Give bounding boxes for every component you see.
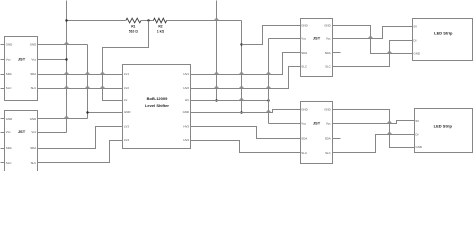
svg-text:Vcc: Vcc <box>31 130 36 134</box>
svg-text:JST: JST <box>313 121 321 126</box>
svg-text:GND: GND <box>6 43 12 47</box>
wire J1 GND row to V2 <box>38 44 88 46</box>
junction Vcc row x V1 <box>65 58 67 60</box>
junction VA x HV row <box>215 99 217 101</box>
svg-text:Level Shifter: Level Shifter <box>145 103 169 108</box>
wire U1 HV row to VC <box>191 100 269 102</box>
LED Strip 1 box <box>413 19 473 61</box>
svg-text:GND: GND <box>30 43 36 47</box>
svg-text:SLC: SLC <box>6 161 12 165</box>
connector J1 (JST) box <box>5 37 38 101</box>
junction U1 GND row x V2 <box>86 111 88 113</box>
svg-text:GND: GND <box>414 52 420 56</box>
wire J4 SLC to LED2 DI <box>333 135 415 153</box>
wire 5V bus VC vertical <box>268 39 270 124</box>
J2 left pin stub GND <box>1 118 5 120</box>
junction HV row x VC <box>267 99 269 101</box>
wire J1 SDA row to U1 LV1 <box>38 74 123 76</box>
svg-text:LV3: LV3 <box>124 125 129 129</box>
wire R1 to R2 with tap <box>141 20 154 22</box>
wire VC top into J3 Vcc row <box>269 38 301 40</box>
LED Strip 2 box <box>415 109 473 153</box>
svg-text:LED Strip: LED Strip <box>434 30 453 35</box>
svg-text:Vcc: Vcc <box>301 122 306 126</box>
wire Vcc bus V1 into J2 Vcc row <box>38 132 67 134</box>
svg-text:Vcc: Vcc <box>301 37 306 41</box>
svg-text:510 Ω: 510 Ω <box>129 30 138 34</box>
svg-text:5V: 5V <box>416 119 420 123</box>
wire GND feed from VB to J3 GND <box>242 26 301 45</box>
hop HV2 row over VC <box>266 86 270 88</box>
svg-text:Vcc: Vcc <box>326 122 331 126</box>
svg-text:SDA: SDA <box>301 137 307 141</box>
connector J3 (JST) box <box>301 19 333 77</box>
junction VB x GND row <box>240 111 242 113</box>
hop SDA row over V1 <box>64 72 68 74</box>
svg-text:HV4: HV4 <box>183 138 189 142</box>
svg-text:SLC: SLC <box>31 86 37 90</box>
hop HV1 row over VA <box>214 72 218 74</box>
hop HV2 row over VB <box>239 86 243 88</box>
svg-text:SDA: SDA <box>6 146 12 150</box>
J1 left pin stub SDA <box>1 74 5 76</box>
svg-text:5V: 5V <box>414 25 418 29</box>
J2 left pin stub Vcc <box>1 132 5 134</box>
svg-text:JST: JST <box>18 57 26 62</box>
svg-text:DI: DI <box>416 132 419 136</box>
hop SLC row over tap leg <box>100 86 104 88</box>
svg-text:GND: GND <box>301 108 307 112</box>
svg-text:SDA: SDA <box>6 72 12 76</box>
wire U1 GND row right to J4 GND <box>191 110 301 113</box>
hop J3 Vcc row over GND drop <box>368 36 372 38</box>
svg-text:SDA: SDA <box>301 51 307 55</box>
svg-text:DI: DI <box>414 39 417 43</box>
wire J3 Vcc to LED1 5V <box>333 27 413 39</box>
hop J4 Vcc row over GND drop <box>387 121 391 123</box>
wire U1 HV1 row to riser into J3 SDA <box>191 53 301 75</box>
wire J1 SLC row to U1 LV2 <box>38 88 123 90</box>
wire tap leg down-left-down to LV pin <box>103 21 149 101</box>
hop HV1 row over VC <box>266 72 270 74</box>
svg-text:SDA: SDA <box>325 137 331 141</box>
wire Vcc bus V1 vertical from top edge <box>66 1 68 133</box>
svg-text:SLC: SLC <box>31 161 37 165</box>
wire GND bus V2 vertical <box>87 45 89 119</box>
svg-text:GND: GND <box>183 110 189 114</box>
wire U1 GND row to V2 <box>88 112 123 114</box>
svg-text:SDA: SDA <box>30 146 36 150</box>
hop LED2 DI row over GND drop <box>387 132 391 134</box>
J1 left pin stub Vcc <box>1 59 5 61</box>
hop SLC row over V1 <box>64 86 68 88</box>
svg-text:LED Strip: LED Strip <box>434 123 453 128</box>
svg-text:GND: GND <box>124 110 130 114</box>
connector J4 (JST) box <box>301 102 333 164</box>
hop HV1 row over VB <box>239 72 243 74</box>
wire J3 GND to LED1 GND <box>333 26 413 54</box>
wire J1 Vcc row to V1 <box>38 59 67 61</box>
svg-text:SLC: SLC <box>325 65 331 69</box>
wire J2 GND row to V2 <box>38 118 88 120</box>
svg-text:BoB-12009: BoB-12009 <box>147 96 168 101</box>
wire J2 SDA riser to U1 LV3 <box>38 127 123 149</box>
wire VC bottom into J4 Vcc row <box>269 123 301 125</box>
svg-text:JST: JST <box>313 36 321 41</box>
J2 left pin stub SDA <box>1 148 5 150</box>
svg-text:HV3: HV3 <box>183 125 189 129</box>
wire top rail from V1 to R1 <box>67 20 126 22</box>
hop rail over VA <box>214 18 218 20</box>
svg-text:SLC: SLC <box>301 151 307 155</box>
svg-text:SLC: SLC <box>325 151 331 155</box>
wire J4 SDA stub unconnected <box>333 138 341 140</box>
hop SLC row over V2 <box>85 86 89 88</box>
hop J1 GND row over V1 <box>64 42 68 44</box>
wire U1 HV3 row step down to J4 SDA <box>191 127 301 139</box>
wire J2 SLC riser to U1 LV4 <box>38 141 123 163</box>
svg-text:LV4: LV4 <box>124 138 129 142</box>
hop GND row over VC <box>266 110 270 112</box>
wire bus VA vertical from top edge to HV row <box>216 1 218 101</box>
svg-text:HV: HV <box>185 98 189 102</box>
svg-text:GND: GND <box>416 145 422 149</box>
svg-text:1 kΩ: 1 kΩ <box>157 30 165 34</box>
svg-text:LV2: LV2 <box>124 86 129 90</box>
level shifter U1 BoB-12009 box <box>123 65 191 149</box>
svg-text:Vcc: Vcc <box>326 37 331 41</box>
svg-text:SDA: SDA <box>325 51 331 55</box>
svg-text:HV1: HV1 <box>183 72 189 76</box>
junction tap node <box>147 19 149 21</box>
junction VB x J3 GND feed row <box>240 43 242 45</box>
hop SDA row over tap leg <box>100 72 104 74</box>
svg-text:Vcc: Vcc <box>6 58 11 62</box>
svg-text:GND: GND <box>324 24 330 28</box>
resistor R2 1 kohm <box>153 18 166 23</box>
J2 left pin stub SLC <box>1 162 5 164</box>
J1 left pin stub GND <box>1 44 5 46</box>
svg-text:LV: LV <box>124 98 127 102</box>
hop SDA row over V2 <box>85 72 89 74</box>
wire J3 SLC to LED1 DI <box>333 41 413 67</box>
hop HV2 row over VA <box>214 86 218 88</box>
svg-text:SLC: SLC <box>6 86 12 90</box>
J1 left pin stub SLC <box>1 88 5 90</box>
svg-text:R1: R1 <box>131 25 135 29</box>
wire bus VB vertical R2 to GND row <box>241 21 243 113</box>
connector J2 (JST) box <box>5 111 38 177</box>
svg-text:SLC: SLC <box>301 65 307 69</box>
resistor R1 510 ohm <box>126 18 141 23</box>
hop LED1 GND row over SLC riser <box>387 51 391 53</box>
hop J2 GND row over V1 <box>64 116 68 118</box>
wire R2 to VB corner <box>167 20 242 22</box>
svg-text:GND: GND <box>301 24 307 28</box>
svg-text:GND: GND <box>6 117 12 121</box>
svg-text:Vcc: Vcc <box>31 58 36 62</box>
svg-text:GND: GND <box>324 108 330 112</box>
svg-text:GND: GND <box>30 117 36 121</box>
hop HV row over VB <box>239 98 243 100</box>
wire J4 Vcc to LED2 5V <box>333 121 415 124</box>
svg-text:JST: JST <box>18 129 26 134</box>
wire J3 SDA stub unconnected <box>333 52 341 54</box>
wire U1 HV2 row to riser into J3 SLC <box>191 67 301 89</box>
svg-text:LV1: LV1 <box>124 72 129 76</box>
svg-text:R2: R2 <box>158 25 162 29</box>
svg-text:Vcc: Vcc <box>6 130 11 134</box>
wire J4 GND to LED2 GND <box>333 110 415 148</box>
svg-text:HV2: HV2 <box>183 86 189 90</box>
svg-text:SDA: SDA <box>30 72 36 76</box>
wire U1 HV4 row step down to J4 SLC <box>191 141 301 153</box>
junction V1 x rail <box>65 19 67 21</box>
